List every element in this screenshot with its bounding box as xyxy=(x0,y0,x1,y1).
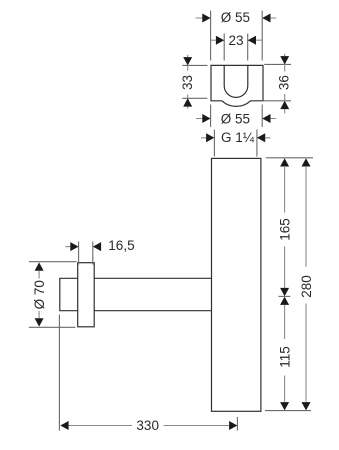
dim 165 : dimension line xyxy=(284,167,286,288)
svg-text:330: 330 xyxy=(136,418,159,433)
right dims shared bottom extension line xyxy=(265,410,311,412)
svg-text:36: 36 xyxy=(277,75,292,90)
dim 330 : arrows xyxy=(60,421,237,430)
dim 36 : dimension line xyxy=(284,54,286,114)
svg-text:33: 33 xyxy=(180,75,195,90)
dim 280 : dimension line xyxy=(305,167,307,402)
dim 33 : dimension line xyxy=(187,55,189,109)
svg-text:280: 280 xyxy=(299,275,314,298)
dim G1-1/4 : extension lines xyxy=(214,130,257,157)
dim 23 : arrows xyxy=(216,36,256,45)
dim 33 : extension lines xyxy=(182,65,207,98)
dim 16,5 : arrows xyxy=(70,242,101,251)
right dims junction tick at pipe axis xyxy=(279,295,291,297)
svg-text:Ø 55: Ø 55 xyxy=(221,10,250,25)
socket U cutout xyxy=(224,65,248,97)
dim 23 : leader lines xyxy=(211,39,262,41)
dim 33 : arrows xyxy=(183,57,192,107)
dim 36 : arrows xyxy=(280,56,289,109)
svg-text:G 1¼: G 1¼ xyxy=(221,130,255,145)
horizontal pipe xyxy=(94,278,211,310)
dim 165 : arrows xyxy=(280,158,289,296)
wall socket body xyxy=(211,65,263,106)
dim O70 : extension lines xyxy=(29,262,77,328)
dim 36 : extension lines xyxy=(263,64,291,100)
dim G1-1/4 : arrows xyxy=(206,133,265,142)
dim 330 : extension lines xyxy=(59,315,237,431)
dim 330 : dimension line xyxy=(68,425,229,427)
dim O55 top : leader lines xyxy=(196,17,277,19)
dim 280 : arrows xyxy=(302,158,311,410)
dim O70 : arrows xyxy=(35,262,44,326)
svg-text:115: 115 xyxy=(277,346,292,368)
svg-text:Ø 70: Ø 70 xyxy=(32,280,47,309)
horizontal pipe stub at wall xyxy=(60,278,78,310)
dim O55 top : extension lines xyxy=(211,11,263,61)
dim G1-1/4 : leader lines xyxy=(201,137,270,139)
dim O55 lower : arrows xyxy=(202,114,270,123)
wall escutcheon flange xyxy=(78,263,95,327)
svg-text:165: 165 xyxy=(278,218,293,241)
dim 115 : dimension line xyxy=(284,305,286,402)
dim 115 : arrows xyxy=(280,297,289,411)
svg-text:16,5: 16,5 xyxy=(108,238,134,253)
dim O55 lower : extension lines xyxy=(211,105,263,128)
right dims shared top extension line xyxy=(266,157,313,159)
svg-text:Ø 55: Ø 55 xyxy=(221,111,250,126)
dim 16,5 : leader line xyxy=(65,246,70,248)
vertical tube body xyxy=(212,158,261,411)
dim O55 top : arrows xyxy=(202,14,270,23)
dim O55 lower : leader lines xyxy=(196,118,276,120)
dim 23 : extension lines xyxy=(224,34,248,61)
dim O70 : dimension line xyxy=(38,271,40,319)
dim 16,5 : extension lines xyxy=(79,242,93,265)
svg-text:23: 23 xyxy=(228,33,243,48)
